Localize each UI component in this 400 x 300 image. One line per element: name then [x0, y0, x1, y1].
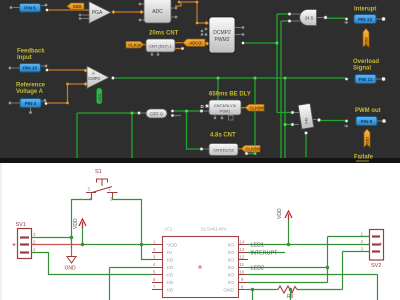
svg-text:20ms CNT: 20ms CNT [149, 31, 179, 37]
svg-text:VDD: VDD [366, 137, 370, 145]
svg-text:LED2: LED2 [251, 266, 265, 272]
svg-text:Voltage A: Voltage A [16, 89, 44, 95]
svg-text:12: 12 [240, 255, 245, 260]
svg-text:SV2: SV2 [371, 263, 381, 269]
svg-text:Input: Input [17, 55, 32, 61]
svg-text:OFF 0: OFF 0 [150, 112, 163, 117]
svg-text:I/O: I/O [167, 265, 174, 271]
svg-text:240: 240 [304, 117, 309, 124]
svg-text:Reference: Reference [16, 83, 46, 89]
svg-text:ADC: ADC [152, 9, 163, 15]
svg-text:I/O: I/O [167, 257, 174, 263]
svg-text:13: 13 [240, 247, 245, 252]
svg-text:I/O: I/O [167, 287, 174, 293]
svg-text:I/O: I/O [228, 280, 235, 286]
svg-text:Signal: Signal [353, 66, 371, 72]
svg-text:IN: IN [167, 250, 172, 256]
svg-text:INTERUPT: INTERUPT [251, 251, 279, 257]
svg-text:I/O: I/O [228, 250, 235, 256]
svg-text:I/O: I/O [228, 265, 235, 271]
svg-text:4.8s CNT: 4.8s CNT [210, 133, 236, 139]
svg-text:I/O: I/O [228, 242, 235, 248]
svg-text:659ms BE DLY: 659ms BE DLY [209, 92, 251, 98]
svg-text:VDD: VDD [73, 218, 79, 229]
svg-text:I/O: I/O [167, 272, 174, 278]
svg-text:PIN 13: PIN 13 [358, 17, 372, 22]
svg-text:I/O: I/O [228, 272, 235, 278]
svg-text:PIN 11: PIN 11 [359, 77, 373, 82]
svg-text:CLK1n: CLK1n [128, 42, 142, 47]
svg-text:14: 14 [240, 240, 245, 245]
svg-text:PWM2: PWM2 [215, 37, 230, 43]
svg-text:PIN 5: PIN 5 [24, 6, 36, 11]
svg-text:CLK5H: CLK5H [246, 146, 260, 151]
svg-text:Overload: Overload [353, 59, 379, 65]
svg-text:CNT3/DLY3/: CNT3/DLY3/ [214, 103, 237, 108]
svg-text:24.5: 24.5 [305, 16, 314, 21]
svg-text:CNT (DLY) 1: CNT (DLY) 1 [149, 44, 173, 49]
svg-text:IC1: IC1 [165, 227, 173, 233]
svg-text:VDD: VDD [73, 4, 82, 9]
svg-text:GND: GND [65, 266, 77, 272]
svg-text:VDD: VDD [365, 37, 369, 45]
svg-text:CNT(DLY)2: CNT(DLY)2 [213, 148, 234, 153]
svg-text:PGA: PGA [92, 10, 103, 16]
svg-text:ADC(C: ADC(C [189, 41, 203, 46]
svg-text:VCC: VCC [98, 94, 102, 102]
svg-text:VDD: VDD [167, 242, 178, 248]
svg-text:CLK9H: CLK9H [250, 105, 264, 110]
svg-text:I/O: I/O [167, 280, 174, 286]
svg-text:A: A [92, 71, 95, 76]
svg-text:PWM out: PWM out [355, 108, 381, 114]
svg-text:DCMP2: DCMP2 [213, 30, 231, 36]
svg-text:S1: S1 [95, 169, 102, 175]
svg-text:Failafe: Failafe [354, 155, 374, 161]
svg-text:PIN 4: PIN 4 [25, 101, 37, 106]
svg-text:I/O: I/O [228, 257, 235, 263]
svg-text:SV1: SV1 [16, 222, 26, 228]
svg-text:CMP0: CMP0 [88, 76, 100, 81]
svg-text:PSM1: PSM1 [220, 109, 232, 114]
svg-text:Interupt: Interupt [354, 7, 376, 13]
svg-text:GND: GND [223, 287, 234, 293]
svg-text:VDD: VDD [277, 208, 283, 219]
svg-text:10: 10 [240, 270, 245, 275]
svg-text:11: 11 [240, 262, 245, 267]
svg-text:SLG46140V: SLG46140V [201, 227, 228, 233]
svg-text:PIN 10: PIN 10 [23, 66, 37, 71]
svg-text:LED1: LED1 [251, 243, 265, 249]
svg-text:PIN 9: PIN 9 [361, 119, 373, 124]
svg-text:Feedback: Feedback [17, 49, 45, 55]
svg-text:R6: R6 [287, 294, 294, 300]
